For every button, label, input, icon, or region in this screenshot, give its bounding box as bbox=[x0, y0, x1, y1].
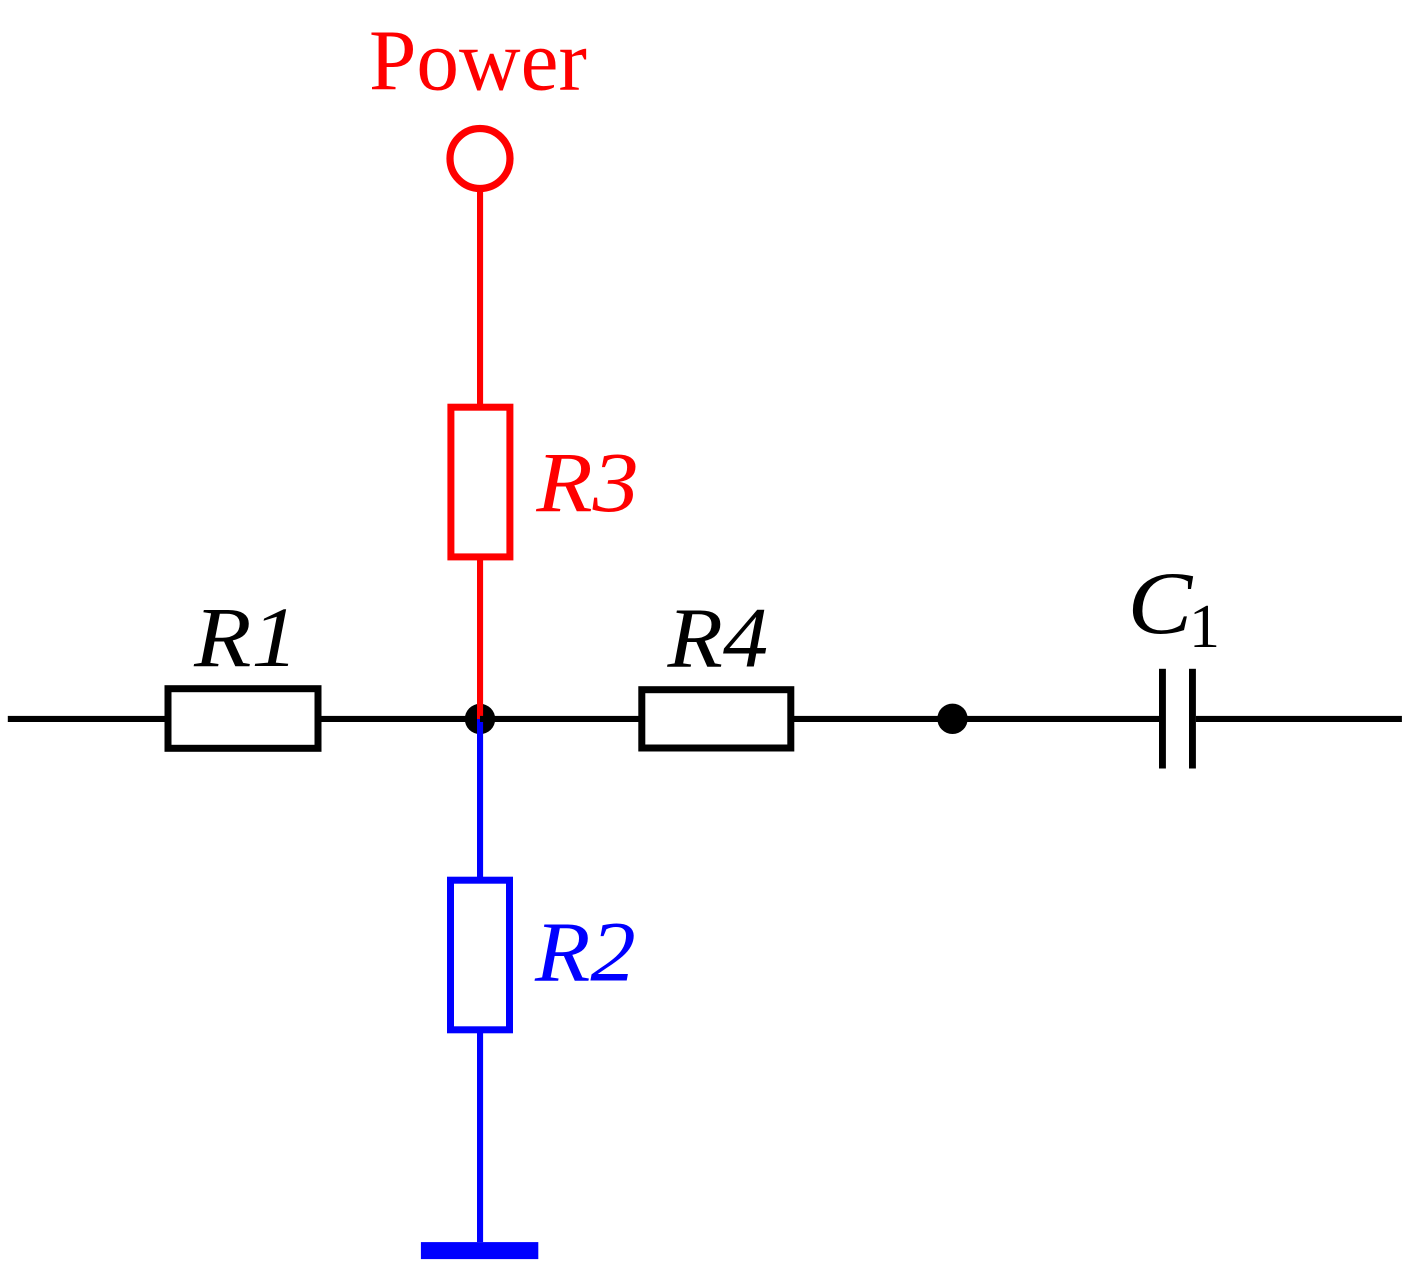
svg-text:R2: R2 bbox=[534, 905, 636, 1000]
wire junction to R4 (drawn over vertical wires) bbox=[480, 716, 642, 722]
wire R1 to junction bbox=[318, 716, 480, 722]
node dot between R4 and C1 bbox=[937, 704, 967, 734]
power terminal circle bbox=[450, 129, 510, 189]
wire R3 to junction (red, over dot) bbox=[477, 557, 483, 720]
wire R2 to ground (blue) bbox=[477, 1030, 483, 1242]
resistor R4 bbox=[642, 690, 791, 748]
wire C1 to right end bbox=[1196, 716, 1402, 722]
wire R4 to node dot to C1 bbox=[791, 716, 1159, 722]
wire power terminal to R3 (red) bbox=[477, 192, 483, 408]
svg-text:R3: R3 bbox=[535, 436, 638, 531]
resistor R2 bbox=[451, 880, 510, 1030]
wire left end to R1 bbox=[8, 716, 168, 722]
capacitor C1 left plate bbox=[1159, 669, 1166, 769]
capacitor C1 right plate bbox=[1189, 669, 1196, 769]
svg-text:Power: Power bbox=[369, 12, 587, 109]
ground symbol bbox=[421, 1242, 538, 1259]
resistor R1 bbox=[168, 689, 318, 749]
svg-text:R4: R4 bbox=[666, 591, 768, 686]
junction node dot bbox=[465, 704, 495, 734]
wire junction to R2 (blue, over dot) bbox=[477, 719, 483, 880]
svg-text:R1: R1 bbox=[193, 591, 298, 686]
svg-text:C: C bbox=[1128, 555, 1194, 653]
svg-text:1: 1 bbox=[1189, 593, 1220, 661]
resistor R3 bbox=[451, 407, 510, 557]
